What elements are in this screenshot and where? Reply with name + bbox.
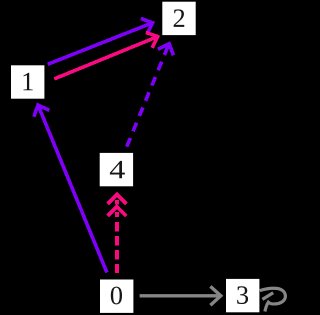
wire: edge 4->2 (purple dashed) <box>127 44 174 147</box>
node 0 label <box>111 287 122 305</box>
node 4 box <box>100 153 133 186</box>
node 2 box <box>162 2 195 35</box>
node 1 label <box>23 73 32 90</box>
wire: edge 0->3 (gray solid) <box>140 286 221 305</box>
node 1 box <box>11 65 44 98</box>
wire: edge 0->4 (magenta dashed, double head) <box>108 195 127 273</box>
node 0 box <box>100 280 133 313</box>
wire: edge 0->1 (purple solid) <box>34 105 107 273</box>
wire: edge 1->2 (magenta solid) <box>54 32 157 79</box>
node 3 label <box>237 286 248 304</box>
node 2 label <box>174 9 185 26</box>
node 4 label <box>110 161 125 178</box>
node 3 box <box>226 279 259 312</box>
wire: edge 1->2 (purple solid) <box>48 18 153 64</box>
wire: self loop on 3 (gray) <box>260 288 286 311</box>
